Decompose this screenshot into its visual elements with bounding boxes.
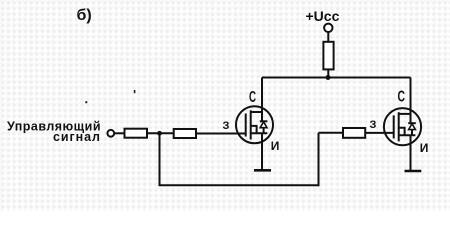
resistor R4 drain load — [323, 42, 333, 70]
resistor R3 — [343, 128, 365, 138]
wire R3 to gate of VT2 — [365, 132, 394, 134]
ink speck — [85, 101, 87, 103]
transistor VT2 — [384, 108, 421, 145]
wire R2 to gate of VT1 — [196, 133, 247, 135]
svg-text:+Ucc: +Ucc — [306, 8, 340, 24]
VT2 source horizontal — [399, 134, 416, 136]
transistor VT1 — [236, 106, 273, 143]
wire top rail — [262, 77, 411, 79]
input terminal — [107, 130, 114, 137]
VT1 body diode triangle — [260, 122, 267, 128]
svg-text:С: С — [249, 89, 256, 106]
wire source VT2 to ground — [410, 135, 412, 171]
ink speck — [134, 90, 136, 93]
svg-text:б): б) — [77, 7, 92, 24]
wire bottom rail up to R3 — [318, 133, 320, 187]
VT2 gate bar — [393, 115, 395, 138]
VT2 body diode triangle — [409, 124, 416, 130]
wire R1 to R2 — [147, 132, 174, 134]
wire drain VT2 to top rail — [410, 78, 412, 124]
wire source VT1 to ground — [261, 133, 263, 170]
VT1 source horizontal — [251, 132, 268, 134]
wire corner to R3 — [319, 132, 344, 134]
wire R4 to top rail — [327, 69, 329, 77]
node junction input divider — [157, 131, 162, 136]
resistor R1 — [125, 129, 148, 138]
VT2 body diode anode lead — [411, 130, 413, 136]
VT2 body circle — [384, 108, 421, 145]
wire terminal to R4 — [327, 32, 329, 42]
VT1 body diode anode lead — [263, 128, 265, 134]
wire input to R1 — [114, 132, 124, 134]
svg-text:З: З — [370, 119, 377, 131]
svg-text:И: И — [271, 139, 280, 153]
VT1 gate bar — [245, 114, 247, 137]
wire bottom rail — [159, 184, 319, 186]
VT2 body diode cathode bar — [408, 122, 416, 124]
VT2 channel bar — [398, 112, 400, 141]
resistor R2 — [174, 129, 196, 138]
wire drain VT1 to top rail — [261, 78, 263, 122]
VT1 channel bar — [250, 110, 252, 139]
ground VT2 — [405, 170, 422, 173]
VT2 drain horizontal — [399, 113, 411, 115]
wire junction down — [159, 133, 161, 185]
supply terminal — [324, 24, 332, 32]
VT1 drain horizontal — [251, 111, 262, 113]
VT1 body circle — [236, 106, 273, 143]
VT1 body diode cathode bar — [260, 120, 268, 122]
svg-text:сигнал: сигнал — [53, 130, 100, 144]
VT1 substrate tap — [251, 126, 257, 133]
VT2 substrate tap — [399, 128, 405, 135]
ground VT1 — [254, 169, 271, 172]
node junction top rail — [326, 75, 331, 80]
svg-text:З: З — [223, 120, 230, 132]
svg-text:С: С — [398, 89, 406, 106]
svg-text:И: И — [420, 141, 429, 155]
